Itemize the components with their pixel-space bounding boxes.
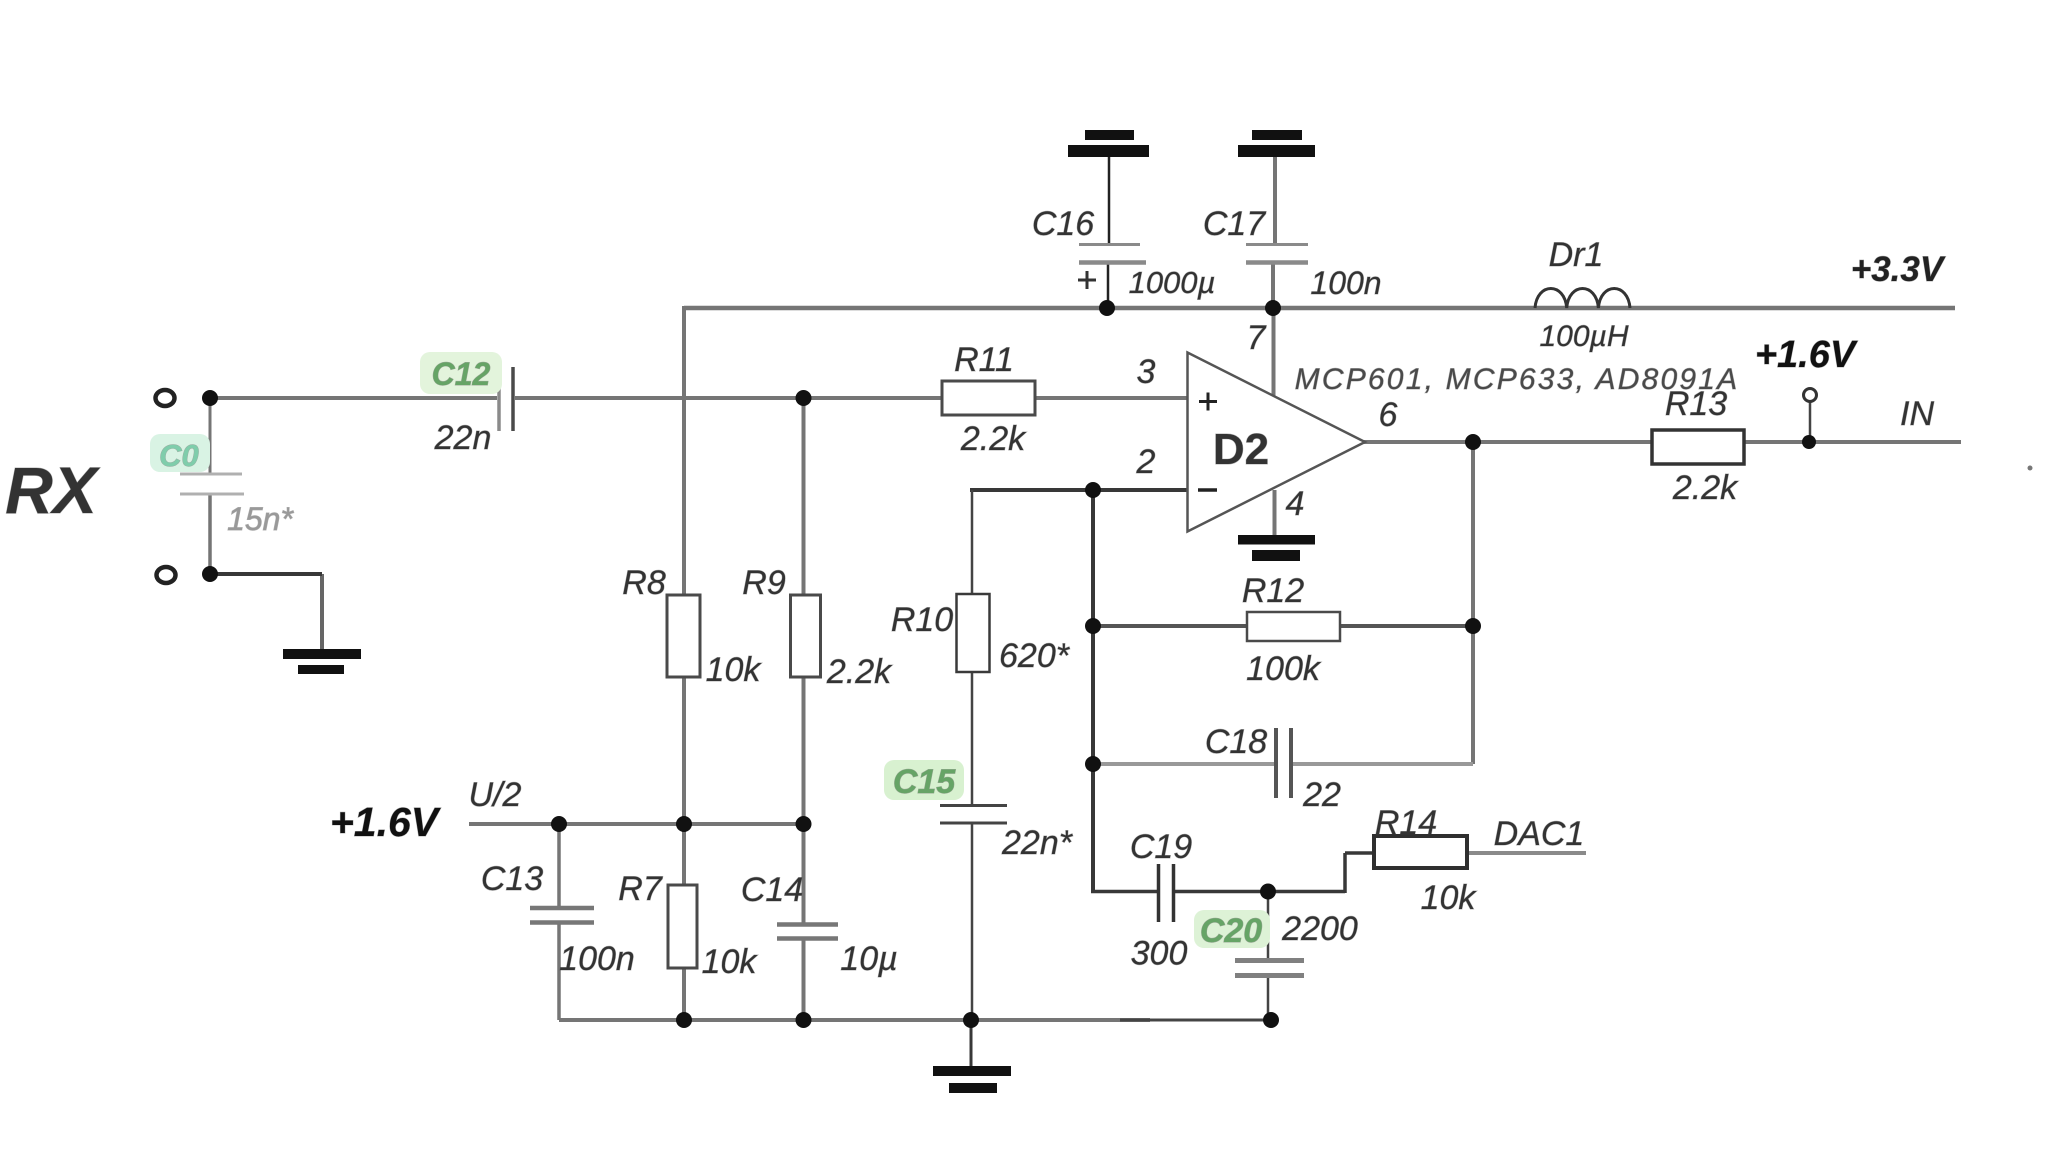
- svg-text:100µH: 100µH: [1539, 320, 1628, 353]
- svg-text:RX: RX: [5, 453, 101, 527]
- svg-text:22n*: 22n*: [1001, 824, 1074, 862]
- svg-text:10k: 10k: [706, 651, 763, 689]
- svg-text:C17: C17: [1203, 205, 1266, 243]
- svg-text:100k: 100k: [1246, 650, 1322, 688]
- svg-text:C12: C12: [432, 356, 491, 392]
- svg-text:3: 3: [1137, 353, 1156, 391]
- svg-text:Dr1: Dr1: [1549, 236, 1604, 274]
- svg-text:+1.6V: +1.6V: [1755, 334, 1858, 376]
- svg-text:C19: C19: [1130, 828, 1192, 866]
- svg-text:C14: C14: [741, 871, 803, 909]
- svg-text:R8: R8: [622, 564, 666, 602]
- svg-text:D2: D2: [1213, 425, 1269, 474]
- svg-text:+1.6V: +1.6V: [330, 799, 442, 845]
- svg-text:22n: 22n: [434, 419, 492, 457]
- svg-text:10k: 10k: [1421, 879, 1478, 917]
- svg-text:R11: R11: [954, 341, 1014, 379]
- svg-text:22: 22: [1302, 776, 1341, 814]
- svg-text:R10: R10: [891, 601, 953, 639]
- svg-text:10µ: 10µ: [840, 940, 897, 978]
- svg-text:C13: C13: [481, 860, 543, 898]
- svg-text:C18: C18: [1205, 723, 1267, 761]
- svg-text:2.2k: 2.2k: [1672, 469, 1739, 507]
- svg-text:2: 2: [1136, 443, 1156, 481]
- svg-text:2.2k: 2.2k: [826, 653, 893, 691]
- svg-text:300: 300: [1131, 935, 1188, 973]
- svg-text:C15: C15: [893, 763, 956, 801]
- svg-text:R13: R13: [1665, 385, 1727, 423]
- svg-text:15n*: 15n*: [227, 501, 294, 537]
- svg-text:6: 6: [1379, 396, 1398, 434]
- svg-text:C16: C16: [1032, 205, 1094, 243]
- svg-text:7: 7: [1247, 319, 1267, 357]
- svg-text:R9: R9: [742, 564, 786, 602]
- svg-text:1000µ: 1000µ: [1129, 265, 1216, 300]
- svg-text:100n: 100n: [559, 940, 635, 978]
- svg-text:U/2: U/2: [469, 776, 522, 814]
- svg-text:2.2k: 2.2k: [960, 420, 1027, 458]
- svg-text:R12: R12: [1242, 572, 1304, 610]
- svg-text:620*: 620*: [999, 637, 1071, 675]
- svg-text:2200: 2200: [1281, 910, 1358, 948]
- svg-text:R7: R7: [618, 870, 663, 908]
- svg-text:10k: 10k: [702, 943, 759, 981]
- svg-text:C0: C0: [159, 438, 199, 473]
- svg-text:C20: C20: [1200, 912, 1262, 950]
- svg-text:100n: 100n: [1310, 265, 1381, 301]
- svg-text:DAC1: DAC1: [1494, 815, 1585, 853]
- svg-text:R14: R14: [1375, 804, 1437, 842]
- svg-text:+3.3V: +3.3V: [1851, 250, 1946, 289]
- svg-text:4: 4: [1286, 485, 1305, 523]
- svg-text:IN: IN: [1900, 395, 1934, 433]
